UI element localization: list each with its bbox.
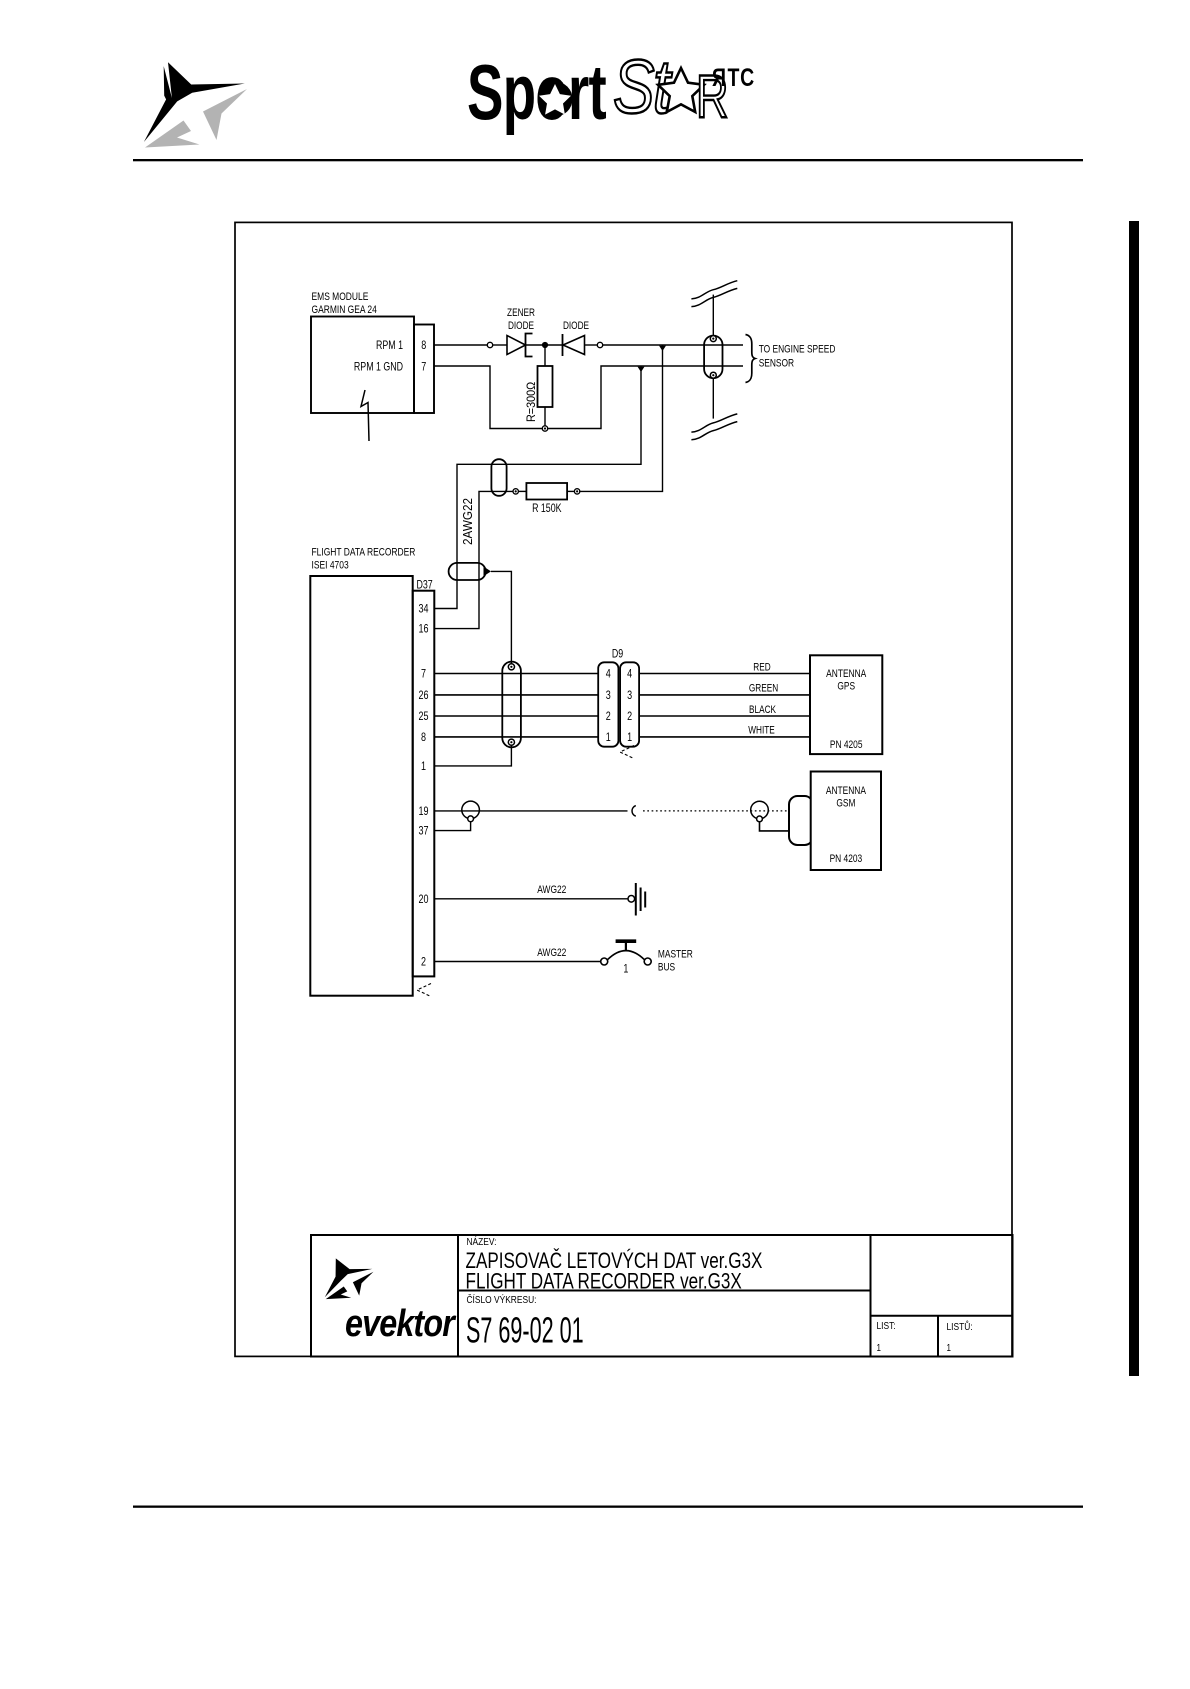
svg-text:34: 34	[418, 602, 428, 616]
svg-text:AWG22: AWG22	[537, 884, 566, 896]
svg-text:1: 1	[606, 731, 611, 745]
wire D9-2 BLACK to GPS	[639, 715, 810, 717]
resistor bottom terminal circle	[542, 426, 547, 431]
cable break wavy top	[691, 281, 737, 307]
wire D37-8 to D9-1	[434, 736, 599, 738]
D37 pin numbers	[418, 602, 428, 969]
svg-text:ZENER: ZENER	[507, 307, 535, 319]
svg-text:19: 19	[418, 805, 428, 819]
svg-text:20: 20	[418, 893, 428, 907]
EMS pin strip	[414, 325, 434, 414]
EMS box break squiggle	[361, 390, 369, 441]
junction marker on GND rail	[638, 367, 645, 372]
svg-text:3: 3	[606, 689, 611, 703]
flight data recorder box U-FDR	[310, 576, 412, 996]
SportStar RTC logo	[467, 44, 755, 136]
D9 orientation mark	[620, 746, 634, 759]
svg-text:GPS: GPS	[837, 680, 855, 692]
svg-text:ANTENNA: ANTENNA	[826, 785, 866, 797]
svg-text:37: 37	[418, 824, 428, 838]
label TO ENGINE SPEED SENSOR	[759, 343, 836, 369]
wire D9-1 WHITE to GPS	[639, 736, 810, 738]
terminal circle R150K right	[574, 489, 579, 494]
coax break arc	[632, 806, 636, 817]
wire D9-4 RED to GPS	[639, 673, 810, 675]
svg-text:ANTENNA: ANTENNA	[826, 668, 866, 680]
brace to engine speed sensor	[746, 335, 756, 383]
wire zener to diode	[526, 344, 563, 346]
svg-text:8: 8	[421, 339, 426, 353]
svg-text:Sport: Sport	[467, 49, 606, 136]
svg-text:2: 2	[606, 710, 611, 724]
D9 connector right column	[620, 662, 639, 746]
resistor R=300 vertical	[526, 345, 553, 426]
svg-text:ČÍSLO VÝKRESU:: ČÍSLO VÝKRESU:	[467, 1294, 537, 1306]
engine speed sensor connector oval	[704, 336, 722, 379]
svg-text:FLIGHT DATA RECORDER ver.G3X: FLIGHT DATA RECORDER ver.G3X	[466, 1269, 742, 1294]
circuit breaker 1A	[601, 941, 652, 976]
bottom rule	[133, 1506, 1083, 1508]
svg-text:1: 1	[877, 1342, 881, 1353]
svg-text:SENSOR: SENSOR	[759, 357, 794, 369]
svg-text:7: 7	[421, 360, 426, 374]
sensor connector top contact	[710, 336, 716, 342]
svg-text:R=300Ω: R=300Ω	[526, 381, 539, 422]
svg-text:BLACK: BLACK	[749, 704, 776, 716]
evektor star logo (header)	[144, 62, 247, 147]
wire RPM rail drop to R150K	[580, 345, 663, 491]
wire D37-7 to D9-4	[434, 673, 599, 675]
D37 orientation mark	[417, 984, 431, 997]
svg-text:GARMIN GEA 24: GARMIN GEA 24	[312, 304, 378, 316]
wire color labels	[748, 661, 778, 737]
svg-text:LISTŮ:: LISTŮ:	[947, 1320, 973, 1333]
wire D37-26 to D9-3	[434, 694, 599, 696]
svg-text:2: 2	[421, 955, 426, 969]
evektor star logo (title block)	[325, 1258, 374, 1299]
svg-text:D9: D9	[612, 648, 623, 660]
D9 connector left column	[598, 662, 618, 746]
terminal circle T2	[597, 342, 602, 347]
svg-text:DIODE: DIODE	[508, 320, 535, 332]
wire D37-2 to breaker	[434, 961, 601, 963]
svg-text:TC: TC	[728, 64, 756, 92]
svg-text:EMS MODULE: EMS MODULE	[312, 291, 369, 303]
wire GND rail drop to pair	[434, 366, 641, 609]
wire D37-25 to D9-2	[434, 715, 599, 717]
header rule	[133, 159, 1083, 161]
revision side bar	[1129, 221, 1139, 1376]
GSM antenna labels	[826, 785, 866, 865]
svg-text:1: 1	[947, 1342, 951, 1353]
coax shield symbol right	[751, 801, 769, 819]
svg-text:AWG22: AWG22	[537, 947, 566, 959]
svg-text:LIST:: LIST:	[877, 1320, 896, 1332]
svg-text:ISEI 4703: ISEI 4703	[312, 559, 350, 571]
coax shield wire to GSM connector	[760, 822, 790, 831]
cable break wavy bottom	[691, 414, 737, 440]
wire D9-3 GREEN to GPS	[639, 694, 810, 696]
wire stubs resistor R150K	[518, 490, 526, 492]
terminal circle R150K left	[513, 489, 518, 494]
shield drain wire to GPS cable shield	[491, 571, 511, 664]
GPS shield top contact	[508, 664, 514, 670]
svg-text:DIODE: DIODE	[563, 320, 590, 332]
wire diode to terminal	[585, 344, 598, 346]
GSM antenna connector housing	[789, 796, 813, 845]
svg-text:PN 4203: PN 4203	[830, 853, 863, 865]
svg-text:16: 16	[418, 622, 428, 636]
svg-text:8: 8	[421, 731, 426, 745]
svg-text:2AWG22: 2AWG22	[460, 498, 475, 545]
wire R150K left to pin16 riser	[434, 491, 513, 628]
svg-text:7: 7	[421, 667, 426, 681]
svg-text:1: 1	[421, 760, 426, 774]
wire terminal to zener	[493, 344, 507, 346]
terminal circle T1	[487, 342, 492, 347]
svg-text:PN 4205: PN 4205	[830, 739, 863, 751]
D37 pin strip	[413, 591, 435, 977]
wire D37-20 to airframe ground	[434, 898, 628, 900]
svg-text:MASTER: MASTER	[658, 948, 693, 960]
zener diode V1	[507, 334, 533, 357]
drawing frame	[235, 222, 1012, 1356]
shield drain tip	[484, 567, 492, 577]
svg-text:26: 26	[418, 689, 428, 703]
svg-text:TO ENGINE SPEED: TO ENGINE SPEED	[759, 343, 836, 355]
svg-text:FLIGHT DATA RECORDER: FLIGHT DATA RECORDER	[312, 546, 416, 558]
svg-text:RPM 1 GND: RPM 1 GND	[354, 361, 403, 373]
svg-text:4: 4	[627, 667, 632, 681]
GSM antenna box	[811, 772, 881, 871]
shield oval on pair (vertical)	[491, 459, 506, 496]
zener diode label	[507, 307, 535, 332]
wire D37-19 coax center	[434, 810, 628, 812]
wire sensor cable down	[712, 378, 714, 418]
GPS shield bottom contact	[508, 739, 514, 745]
ground symbol	[636, 883, 645, 916]
svg-text:R: R	[712, 64, 726, 92]
EMS module box U-GEA24	[311, 317, 414, 414]
junction marker on RPM1 rail	[659, 346, 666, 351]
svg-text:1: 1	[627, 731, 632, 745]
flight data recorder label	[312, 546, 416, 571]
coax shield symbol left	[462, 801, 480, 819]
shield oval at D37 pair (horizontal)	[449, 563, 486, 580]
wire D37-37 to coax shield	[434, 822, 471, 831]
svg-text:BUS: BUS	[658, 961, 676, 973]
svg-text:evektor: evektor	[345, 1303, 457, 1345]
RPM1 GND wire path	[434, 366, 542, 429]
sensor connector bottom contact	[710, 372, 716, 378]
svg-text:WHITE: WHITE	[748, 725, 775, 737]
wire pin8 to terminal	[434, 344, 487, 346]
diode V2	[563, 334, 585, 356]
wire sensor cable up	[712, 295, 714, 336]
GPS cable shield stadium	[502, 662, 521, 748]
svg-text:R 150K: R 150K	[532, 503, 562, 515]
GPS antenna labels	[826, 668, 866, 751]
EMS module label	[312, 291, 378, 316]
svg-text:GREEN: GREEN	[749, 683, 778, 695]
junction node A	[542, 342, 548, 348]
svg-text:4: 4	[606, 667, 611, 681]
GPS antenna box	[810, 655, 882, 754]
svg-text:RPM 1: RPM 1	[376, 340, 403, 352]
wire D37-1 to GPS cable shield	[434, 745, 511, 766]
title block outline	[311, 1235, 1013, 1357]
ground terminal circle	[628, 896, 635, 903]
label MASTER BUS	[658, 948, 693, 973]
coax dotted run	[643, 810, 789, 812]
svg-text:S7 69-02 01: S7 69-02 01	[466, 1311, 584, 1351]
svg-text:RED: RED	[753, 661, 770, 673]
wire RPM1 rail to sensor	[603, 344, 743, 346]
D9 pin numbers	[606, 667, 632, 744]
svg-text:GSM: GSM	[836, 797, 855, 809]
svg-text:1: 1	[623, 962, 628, 976]
svg-text:D37: D37	[417, 579, 433, 591]
svg-text:3: 3	[627, 689, 632, 703]
svg-text:NÁZEV:: NÁZEV:	[467, 1236, 497, 1248]
svg-text:25: 25	[418, 710, 428, 724]
svg-text:2: 2	[627, 710, 632, 724]
resistor R 150K	[526, 483, 567, 500]
